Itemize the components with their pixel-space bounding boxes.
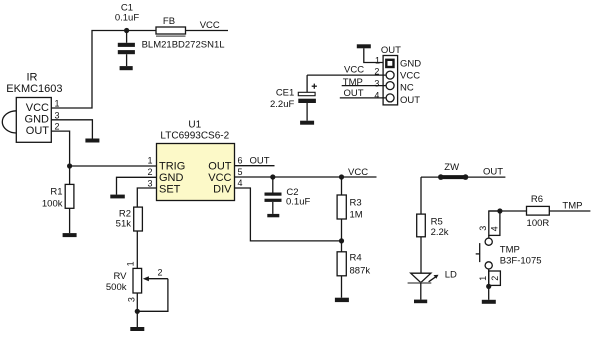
capacitor CE1 bbox=[298, 75, 316, 121]
svg-text:1: 1 bbox=[126, 261, 136, 266]
svg-text:1M: 1M bbox=[350, 210, 363, 221]
wire U1 OUT pin6 bbox=[235, 165, 275, 167]
svg-text:3: 3 bbox=[374, 79, 379, 89]
svg-text:500k: 500k bbox=[106, 282, 127, 293]
svg-text:VCC: VCC bbox=[208, 172, 231, 184]
svg-text:GND: GND bbox=[25, 113, 50, 125]
svg-text:3: 3 bbox=[147, 178, 152, 188]
svg-text:2.2k: 2.2k bbox=[431, 227, 449, 238]
wire bbox=[341, 241, 343, 252]
svg-text:6: 6 bbox=[237, 156, 242, 166]
svg-text:TMP: TMP bbox=[562, 201, 582, 212]
wire R4 to ground bbox=[341, 276, 343, 298]
svg-text:OUT: OUT bbox=[250, 155, 270, 166]
wire pin3 to contact bbox=[488, 235, 490, 238]
ground bbox=[110, 195, 125, 199]
svg-text:2.2uF: 2.2uF bbox=[270, 99, 294, 110]
svg-text:4: 4 bbox=[374, 90, 379, 100]
wire U1 SET pin3 to R2 bbox=[137, 188, 156, 207]
svg-text:CE1: CE1 bbox=[276, 88, 294, 99]
wire TMP stub pin3 bbox=[342, 85, 386, 87]
wire bbox=[69, 208, 71, 233]
resistor R3 bbox=[337, 195, 346, 219]
ground bbox=[335, 298, 349, 302]
resistor R1 bbox=[65, 184, 74, 208]
svg-text:NC: NC bbox=[400, 83, 414, 94]
svg-text:1: 1 bbox=[147, 156, 152, 166]
svg-text:B3F-1075: B3F-1075 bbox=[500, 256, 542, 267]
pin 4 pad bbox=[386, 94, 394, 102]
wire R5 to LED bbox=[420, 237, 422, 273]
node R3/R4 junction bbox=[339, 238, 344, 243]
svg-text:BLM21BD272SN1L: BLM21BD272SN1L bbox=[142, 40, 225, 51]
svg-text:DIV: DIV bbox=[213, 184, 232, 196]
ground bbox=[63, 233, 77, 237]
svg-text:2: 2 bbox=[158, 268, 163, 278]
wire VCC to header pin2 bbox=[307, 74, 386, 76]
pin 1 square pad bbox=[386, 60, 393, 67]
pin 2 pad bbox=[386, 71, 394, 79]
wire R3 to node bbox=[341, 219, 343, 241]
svg-text:GND: GND bbox=[159, 172, 184, 184]
node R3 junction bbox=[339, 174, 344, 179]
svg-text:OUT: OUT bbox=[400, 95, 420, 106]
svg-text:2: 2 bbox=[490, 276, 500, 281]
wire node A to TRIG bbox=[70, 165, 157, 167]
svg-text:1: 1 bbox=[478, 276, 488, 281]
wire LED to ground bbox=[420, 283, 422, 300]
svg-text:LD: LD bbox=[445, 269, 457, 280]
ground bbox=[267, 214, 279, 217]
resistor R6 bbox=[527, 206, 550, 215]
svg-text:3: 3 bbox=[126, 297, 136, 302]
wire pin2 IR to node A bbox=[51, 131, 69, 166]
wire switch top rail bbox=[489, 210, 527, 212]
node A junction bbox=[67, 163, 72, 168]
svg-text:TMP: TMP bbox=[343, 77, 363, 88]
polarity plus CE1 bbox=[312, 84, 317, 89]
node RV bottom junction bbox=[135, 309, 140, 314]
svg-text:3: 3 bbox=[478, 226, 488, 231]
svg-text:887k: 887k bbox=[350, 266, 371, 277]
ground bbox=[300, 121, 314, 125]
svg-text:RV: RV bbox=[113, 271, 127, 282]
svg-text:OUT: OUT bbox=[381, 45, 401, 56]
svg-text:2: 2 bbox=[55, 122, 60, 132]
wire header pin1 to ground bbox=[364, 48, 386, 62]
wire R6 to TMP bbox=[549, 210, 590, 212]
wire RV pin3 down bbox=[136, 293, 138, 327]
svg-text:OUT: OUT bbox=[483, 167, 503, 178]
ground bbox=[414, 300, 427, 304]
svg-text:OUT: OUT bbox=[26, 125, 50, 137]
wire RV wiper to bottom bbox=[137, 279, 168, 312]
svg-text:R4: R4 bbox=[350, 252, 362, 263]
svg-text:LTC6993CS6-2: LTC6993CS6-2 bbox=[160, 131, 229, 142]
svg-text:VCC: VCC bbox=[344, 65, 364, 76]
svg-text:GND: GND bbox=[400, 58, 421, 69]
wire pin1 down bbox=[488, 269, 490, 300]
ground bbox=[85, 139, 99, 143]
svg-text:TMP: TMP bbox=[500, 244, 520, 255]
svg-text:3: 3 bbox=[55, 111, 60, 121]
svg-text:51k: 51k bbox=[116, 219, 132, 230]
wire U1 GND pin2 to ground bbox=[117, 177, 157, 194]
connector P1 body bbox=[383, 56, 398, 105]
capacitor C1 bbox=[118, 31, 135, 67]
svg-text:ZW: ZW bbox=[444, 162, 459, 173]
potentiometer RV bbox=[133, 268, 168, 293]
svg-text:TRIG: TRIG bbox=[159, 161, 185, 173]
resistor R4 bbox=[337, 252, 346, 276]
svg-text:100R: 100R bbox=[527, 218, 550, 229]
wire pin3 IR to ground bbox=[51, 120, 92, 139]
wire VCC rail pin5 bbox=[235, 176, 377, 178]
svg-text:VCC: VCC bbox=[400, 71, 420, 82]
resistor R5 bbox=[417, 214, 426, 237]
svg-text:EKMC1603: EKMC1603 bbox=[6, 83, 62, 95]
svg-text:0.1uF: 0.1uF bbox=[286, 197, 310, 208]
svg-text:1: 1 bbox=[375, 55, 380, 65]
node C1 junction bbox=[124, 28, 129, 33]
IR sensor U EKMC1603 bbox=[2, 98, 51, 143]
svg-text:VCC: VCC bbox=[26, 102, 49, 114]
switch contact top bbox=[485, 238, 492, 245]
ferrite bead FB bbox=[156, 27, 186, 36]
LED LD bbox=[408, 273, 439, 283]
switch contact bottom bbox=[485, 262, 492, 269]
svg-text:2: 2 bbox=[374, 67, 379, 77]
wire bbox=[186, 30, 229, 32]
resistor R2 bbox=[134, 207, 143, 231]
svg-text:4: 4 bbox=[489, 226, 499, 231]
wire U1 DIV pin4 to R3/R4 node bbox=[235, 188, 342, 241]
svg-text:R1: R1 bbox=[50, 187, 62, 198]
wire ZW rail bbox=[421, 176, 505, 178]
wire R2 to RV bbox=[136, 231, 138, 268]
ground (header pin1) bbox=[357, 44, 371, 48]
svg-text:5: 5 bbox=[237, 167, 242, 177]
svg-text:R3: R3 bbox=[350, 197, 362, 208]
node switch/R6 junction bbox=[497, 208, 502, 213]
svg-text:SET: SET bbox=[159, 184, 181, 196]
switch S1 pin4 frame bbox=[489, 211, 500, 235]
pin 3 pad bbox=[386, 82, 394, 90]
wire top rail C1/FB bbox=[51, 31, 156, 109]
svg-text:OUT: OUT bbox=[344, 88, 364, 99]
svg-text:2: 2 bbox=[147, 167, 152, 177]
node switch bottom junction bbox=[486, 284, 491, 289]
svg-text:0.1uF: 0.1uF bbox=[115, 13, 139, 24]
ground bbox=[120, 66, 133, 70]
svg-text:VCC: VCC bbox=[348, 167, 368, 178]
ground bbox=[482, 300, 496, 304]
svg-text:FB: FB bbox=[163, 16, 175, 27]
svg-text:U1: U1 bbox=[188, 120, 201, 131]
svg-text:100k: 100k bbox=[42, 198, 63, 209]
jumper ZW bbox=[438, 174, 468, 180]
svg-text:1: 1 bbox=[55, 99, 60, 109]
wire to R5 bbox=[420, 177, 422, 214]
svg-text:OUT: OUT bbox=[208, 161, 232, 173]
wire node A down bbox=[69, 166, 71, 184]
svg-text:IR: IR bbox=[27, 72, 38, 84]
svg-text:R6: R6 bbox=[531, 194, 543, 205]
wire OUT stub pin4 bbox=[340, 97, 386, 99]
op-amp U1 LTC6993CS6-2 body bbox=[157, 144, 235, 201]
wire R3 top bbox=[341, 177, 343, 195]
node C2 junction bbox=[270, 174, 275, 179]
switch actuator bbox=[476, 243, 480, 262]
svg-text:4: 4 bbox=[237, 178, 242, 188]
ground bbox=[130, 327, 144, 331]
svg-text:VCC: VCC bbox=[200, 20, 220, 31]
capacitor C2 bbox=[265, 177, 282, 214]
switch S1 pin2 frame bbox=[489, 271, 501, 285]
